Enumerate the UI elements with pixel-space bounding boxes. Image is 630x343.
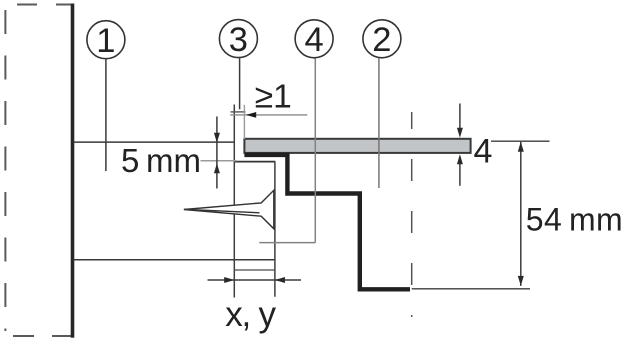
callout circle 3 xyxy=(219,20,257,59)
worktop cutout edge / extension line A xyxy=(233,105,235,298)
rebate floor line xyxy=(234,161,275,163)
wall dashed outline (left side) xyxy=(5,5,74,337)
callout circle 2 xyxy=(363,20,401,59)
gray reference line for 5mm dimension xyxy=(201,160,237,162)
svg-text:5 mm: 5 mm xyxy=(121,142,201,179)
leader line circle 2 xyxy=(378,58,380,188)
dimension 4 (glass thickness) xyxy=(459,104,461,186)
svg-text:x, y: x, y xyxy=(225,295,276,334)
dimension 5 mm (rebate depth) xyxy=(121,117,220,189)
wall face (thick vertical line) xyxy=(71,4,75,338)
centerline (dash) xyxy=(411,112,413,317)
leader line circle 4 xyxy=(259,58,315,242)
worktop bottom surface line xyxy=(73,259,276,261)
svg-text:4: 4 xyxy=(305,21,324,59)
hob body profile (thick stepped line) xyxy=(244,155,410,289)
glass ceramic panel xyxy=(244,139,470,153)
svg-text:4: 4 xyxy=(474,133,493,171)
auxiliary line in cutout xyxy=(234,269,275,271)
worktop top surface line xyxy=(73,141,234,143)
inner cutout edge / extension line xyxy=(274,162,276,297)
svg-text:3: 3 xyxy=(229,21,248,59)
svg-text:54 mm: 54 mm xyxy=(526,201,623,237)
dimension >=1 (gap glass to cutout) xyxy=(230,78,307,139)
screw (countersunk fastening screw) xyxy=(184,190,274,229)
dimension 54 mm (hob depth) xyxy=(412,141,623,289)
leader line circle 1 xyxy=(105,60,107,172)
leader line circle 3 xyxy=(239,58,241,109)
dimension x, y (rebate width) xyxy=(208,277,302,334)
callout circle 1 xyxy=(87,21,125,60)
svg-text:≥1: ≥1 xyxy=(255,78,292,115)
callout circle 4 xyxy=(295,20,333,59)
svg-text:1: 1 xyxy=(96,22,115,60)
svg-text:2: 2 xyxy=(372,21,391,59)
